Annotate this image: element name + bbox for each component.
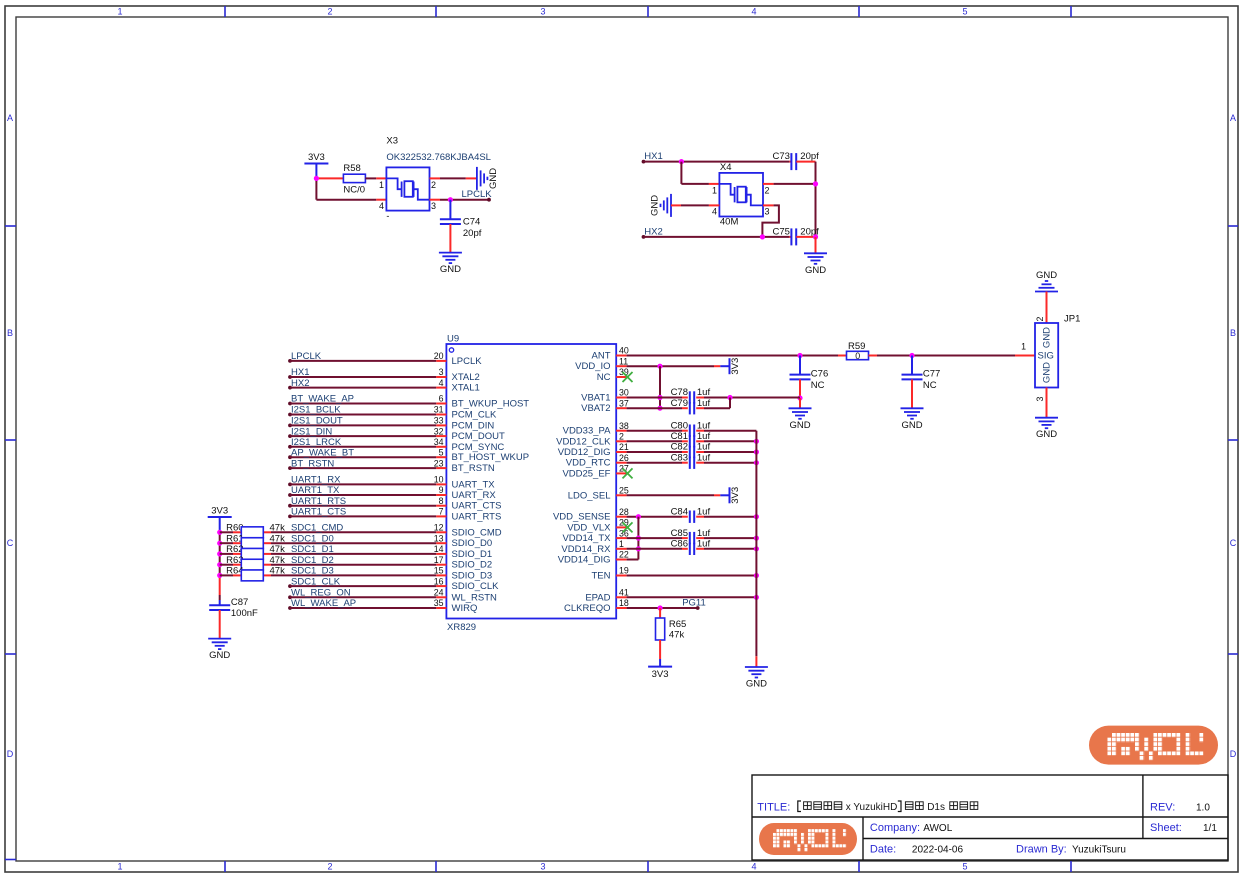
net CLKREQO wire (627, 607, 698, 609)
svg-text:REV:: REV: (1150, 802, 1175, 814)
junction VBAT1 (657, 395, 662, 400)
svg-text:GND: GND (209, 650, 230, 661)
net VDD14_TX wire (627, 537, 682, 539)
C76 top lead (799, 356, 801, 375)
svg-text:UART_CTS: UART_CTS (452, 501, 502, 512)
U9 pin 26 VDD_RTC (616, 462, 626, 464)
wire net HX1 (288, 375, 292, 379)
wire net BT_RSTN (288, 466, 292, 470)
U9 pin 12 SDIO_CMD (436, 531, 446, 533)
wire right riser (X4/GND) (815, 162, 817, 238)
svg-text:3V3: 3V3 (652, 669, 669, 680)
svg-text:SDC1_D0: SDC1_D0 (291, 533, 334, 544)
svg-text:24: 24 (434, 588, 444, 598)
svg-text:16: 16 (434, 576, 444, 586)
U9 pin 16 SDIO_CLK (436, 585, 446, 587)
IC U9 body (446, 344, 616, 619)
svg-text:21: 21 (619, 442, 629, 452)
svg-text:2: 2 (765, 186, 770, 196)
capacitor C80 (690, 425, 694, 437)
svg-text:5: 5 (439, 447, 444, 457)
junction VDD14_RX (636, 546, 641, 551)
ground (C76) (789, 408, 812, 419)
no-connect pin 39 (623, 372, 633, 382)
wire net AP_WAKE_BT (288, 455, 292, 459)
svg-text:XTAL1: XTAL1 (452, 383, 480, 394)
svg-text:GND: GND (805, 265, 826, 276)
svg-text:C: C (7, 538, 14, 548)
net wire to C80 (627, 430, 682, 432)
junction rail/R62 (217, 551, 222, 556)
svg-text:JP1: JP1 (1064, 314, 1080, 325)
svg-text:12: 12 (434, 523, 444, 533)
JP1 pin 3 stub (1046, 388, 1048, 418)
svg-text:X3: X3 (386, 136, 398, 147)
net VDD14_DIG wire (627, 559, 639, 561)
svg-text:I2S1_LRCK: I2S1_LRCK (291, 437, 342, 448)
svg-text:D: D (7, 749, 14, 759)
svg-text:SDIO_D0: SDIO_D0 (452, 538, 493, 549)
svg-text:5: 5 (962, 7, 967, 17)
wire rail to C87 (219, 575, 221, 578)
wire C80 to bus (704, 430, 756, 432)
svg-text:VDD14_RX: VDD14_RX (561, 544, 611, 555)
net ANT wire (627, 355, 838, 357)
svg-text:28: 28 (619, 507, 629, 517)
junction C76/VBAT caps/GND (797, 395, 802, 400)
svg-text:15: 15 (434, 566, 444, 576)
net HX1 wire end (642, 160, 646, 164)
svg-text:SDC1_CMD: SDC1_CMD (291, 523, 343, 534)
U9 pin 20 LPCLK (436, 360, 446, 362)
junction X4 pin2/riser (813, 181, 818, 186)
capacitor C84 (690, 511, 694, 523)
net VDD_IO wire (627, 365, 714, 367)
svg-text:YuzukiTsuru: YuzukiTsuru (1072, 845, 1126, 856)
capacitor C81 (690, 435, 694, 447)
svg-text:CLKREQO: CLKREQO (564, 603, 610, 614)
svg-text:VBAT2: VBAT2 (581, 403, 610, 414)
svg-text:VDD14_TX: VDD14_TX (562, 533, 611, 544)
resistor R62 (241, 548, 263, 559)
U9 pin 31 PCM_CLK (436, 414, 446, 416)
svg-text:47k: 47k (270, 523, 286, 534)
svg-text:34: 34 (434, 437, 444, 447)
svg-text:XTAL2: XTAL2 (452, 372, 480, 383)
U9 pin 11 VDD_IO (616, 365, 626, 367)
JP1 pin 2 stub (1046, 292, 1048, 324)
svg-text:GND: GND (440, 264, 461, 275)
R65 bottom stub (659, 640, 661, 659)
svg-text:C75: C75 (773, 227, 790, 238)
U9 pin 13 SDIO_D0 (436, 542, 446, 544)
U9 pin 41 EPAD (616, 596, 626, 598)
svg-text:VDD12_CLK: VDD12_CLK (556, 436, 611, 447)
wire net UART1_RX (288, 483, 292, 487)
svg-text:HX1: HX1 (644, 151, 662, 162)
U9 pin 40 ANT (616, 355, 626, 357)
U9 pin 33 PCM_DIN (436, 424, 446, 426)
svg-text:C77: C77 (923, 368, 940, 379)
svg-text:GND: GND (650, 195, 661, 216)
net LDO_SEL wire (627, 494, 714, 496)
capacitor C85 (690, 532, 694, 544)
ground (JP1 top) (1035, 281, 1058, 292)
svg-text:2: 2 (1035, 316, 1045, 321)
svg-text:AWOL: AWOL (923, 823, 953, 834)
net PG11 wire end (696, 606, 700, 610)
wire to X3 pin 4 (316, 199, 376, 201)
svg-text:11: 11 (619, 356, 628, 366)
resistor R65 (656, 618, 665, 640)
C74 top lead (449, 200, 451, 220)
svg-text:XR829: XR829 (447, 622, 476, 633)
svg-text:1: 1 (1021, 342, 1026, 352)
svg-text:38: 38 (619, 421, 629, 431)
X4 pin 4 stub (709, 204, 720, 206)
C77 bottom lead (911, 379, 913, 408)
capacitor C82 (690, 446, 694, 458)
wire R59 to JP1 (877, 355, 1015, 357)
resistor R61 (241, 538, 263, 549)
resistor R63 (241, 559, 263, 570)
svg-text:D: D (1230, 749, 1237, 759)
wire net WL_WAKE_AP (288, 606, 292, 610)
border column tick (224, 6, 226, 17)
GND stem (X3 pin2) (466, 177, 477, 179)
capacitor C86 (690, 543, 694, 555)
U9 pin 23 BT_RSTN (436, 467, 446, 469)
svg-text:TEN: TEN (592, 571, 611, 582)
wire X4 pin2 to riser (774, 183, 816, 185)
power stem (VDD_IO) (714, 365, 720, 367)
svg-text:BT_HOST_WKUP: BT_HOST_WKUP (452, 452, 530, 463)
svg-text:20pf: 20pf (800, 151, 819, 162)
X3 pin 2 stub (430, 177, 441, 179)
svg-text:8: 8 (439, 496, 444, 506)
capacitor C77 (902, 375, 923, 380)
border bottom-left tick (5, 859, 16, 861)
junction 3V3/R58 (314, 176, 319, 181)
wire X3 pin 2 to GND (440, 177, 466, 179)
capacitor C79 (690, 402, 694, 414)
svg-text:R58: R58 (343, 163, 360, 174)
GND stem (X4) (815, 237, 817, 253)
svg-text:35: 35 (434, 598, 444, 608)
crystal X3 body (386, 167, 429, 210)
svg-text:40M: 40M (720, 217, 739, 228)
power 3V3 (X3) (304, 163, 328, 165)
wire net WL_REG_ON (288, 595, 292, 599)
svg-text:B: B (7, 328, 13, 338)
svg-text:14: 14 (434, 544, 444, 554)
no-connect pin 27 (623, 468, 633, 478)
svg-text:C84: C84 (671, 506, 688, 517)
svg-text:C86: C86 (671, 539, 688, 550)
svg-text:VDD_SENSE: VDD_SENSE (553, 512, 611, 523)
svg-text:SDC1_D3: SDC1_D3 (291, 566, 334, 577)
svg-text:6: 6 (439, 394, 444, 404)
svg-text:Date:: Date: (870, 844, 896, 856)
JP1 pin 1 stub (1015, 355, 1035, 357)
svg-text:22: 22 (619, 550, 629, 560)
svg-text:C81: C81 (671, 431, 688, 442)
power 3V3 stem (pullups) (219, 517, 221, 532)
svg-text:20: 20 (434, 351, 444, 361)
svg-text:47k: 47k (270, 555, 286, 566)
svg-text:25: 25 (619, 486, 629, 496)
U9 pin 10 UART_TX (436, 483, 446, 485)
svg-text:UART1_CTS: UART1_CTS (291, 507, 346, 518)
svg-text:WIRQ: WIRQ (452, 603, 478, 614)
border column tick (858, 6, 860, 17)
junction LPCLK/C74 (448, 197, 453, 202)
border row tick (5, 225, 16, 227)
svg-text:NC/0: NC/0 (343, 184, 365, 195)
svg-text:LPCLK: LPCLK (452, 356, 483, 367)
svg-text:VDD_VLX: VDD_VLX (567, 522, 611, 533)
junction bus/C83 (754, 460, 759, 465)
svg-text:2: 2 (327, 7, 332, 17)
svg-text:2: 2 (431, 180, 436, 190)
junction bus/C82 (754, 449, 759, 454)
svg-text:C: C (1230, 538, 1237, 548)
U9 pin 8 UART_CTS (436, 505, 446, 507)
svg-text:VBAT1: VBAT1 (581, 393, 610, 404)
R59 left stub (838, 355, 847, 357)
junction HX1 (679, 159, 684, 164)
C87 top lead (219, 600, 221, 605)
svg-text:C73: C73 (773, 151, 790, 162)
U9 pin 36 VDD14_TX (616, 537, 626, 539)
svg-text:Drawn By:: Drawn By: (1016, 844, 1067, 856)
svg-text:HX2: HX2 (291, 378, 309, 389)
wire X3 pin 3 / LPCLK (440, 199, 489, 201)
svg-text:3: 3 (1035, 396, 1045, 401)
U9 pin 34 PCM_SYNC (436, 446, 446, 448)
svg-text:C83: C83 (671, 452, 688, 463)
wire HX1 down to X4 pin1 (680, 162, 682, 184)
wire net SDC1_D1 (263, 553, 271, 555)
svg-text:UART_TX: UART_TX (452, 479, 496, 490)
svg-text:PCM_DOUT: PCM_DOUT (452, 431, 506, 442)
net VDD_SENSE wire (627, 516, 682, 518)
svg-text:SDIO_D3: SDIO_D3 (452, 570, 493, 581)
svg-text:LDO_SEL: LDO_SEL (568, 490, 611, 501)
wire net I2S1_BCLK (288, 413, 292, 417)
wire net I2S1_DIN (288, 434, 292, 438)
junction bus/C81 (754, 439, 759, 444)
svg-text:SIG: SIG (1038, 351, 1054, 362)
svg-text:PCM_CLK: PCM_CLK (452, 410, 498, 421)
wire net UART1_CTS (288, 515, 292, 519)
title text (798, 801, 801, 812)
svg-text:1: 1 (117, 7, 122, 17)
power 3V3 stem (315, 164, 317, 179)
C75 right lead (796, 236, 815, 238)
junction HX2/X4 pin3 (760, 234, 765, 239)
svg-text:18: 18 (619, 598, 629, 608)
power 3V3 (pullups) (208, 516, 232, 518)
svg-text:UART1_RTS: UART1_RTS (291, 496, 346, 507)
R59 right stub (869, 355, 878, 357)
svg-text:3: 3 (540, 862, 545, 872)
R60 left stub (233, 531, 241, 533)
border row tick (5, 439, 16, 441)
svg-text:19: 19 (619, 566, 629, 576)
C74 bottom lead (449, 224, 451, 253)
svg-text:SDIO_D2: SDIO_D2 (452, 560, 493, 571)
svg-text:GND: GND (746, 679, 767, 690)
junction rail/R61 (217, 541, 222, 546)
svg-text:3: 3 (431, 201, 436, 211)
svg-text:VDD_IO: VDD_IO (575, 361, 610, 372)
wire net UART1_RTS (288, 504, 292, 508)
svg-text:NC: NC (597, 372, 611, 383)
svg-text:100nF: 100nF (231, 608, 258, 619)
svg-text:SDC1_CLK: SDC1_CLK (291, 576, 341, 587)
svg-text:C74: C74 (463, 217, 480, 228)
GND stem (C76) (799, 398, 801, 408)
svg-text:Sheet:: Sheet: (1150, 822, 1182, 834)
svg-text:C85: C85 (671, 528, 688, 539)
wire net I2S1_LRCK (288, 445, 292, 449)
svg-text:GND: GND (1042, 327, 1053, 348)
wire C81 to bus (704, 440, 756, 442)
svg-text:C78: C78 (671, 387, 688, 398)
svg-text:5: 5 (962, 862, 967, 872)
svg-text:4: 4 (712, 207, 717, 217)
U9 pin 28 VDD_SENSE (616, 516, 626, 518)
svg-text:47k: 47k (270, 544, 286, 555)
svg-text:A: A (1230, 113, 1236, 123)
svg-text:R65: R65 (669, 619, 686, 630)
U9 pin 30 VBAT1 (616, 397, 626, 399)
svg-text:3V3: 3V3 (308, 152, 325, 163)
wire 3V3 down (315, 178, 317, 199)
svg-text:7: 7 (439, 507, 444, 517)
svg-text:3: 3 (439, 367, 444, 377)
X4 pin 2 stub (763, 183, 774, 185)
svg-text:13: 13 (434, 533, 444, 543)
svg-text:VDD14_DIG: VDD14_DIG (558, 555, 611, 566)
power 3V3 (R65) (648, 666, 672, 668)
junction rail/R63 (217, 562, 222, 567)
U9 pin 22 VDD14_DIG (616, 559, 626, 561)
svg-text:3V3: 3V3 (730, 358, 741, 375)
svg-text:X4: X4 (720, 162, 732, 173)
U9 pin 37 VBAT2 (616, 407, 626, 409)
svg-text:SDIO_CLK: SDIO_CLK (452, 581, 500, 592)
svg-text:4: 4 (751, 862, 756, 872)
net VBAT1 wire (627, 397, 682, 399)
svg-text:GND: GND (1036, 270, 1057, 281)
svg-text:32: 32 (434, 426, 444, 436)
svg-text:C79: C79 (671, 398, 688, 409)
svg-text:0: 0 (855, 351, 860, 361)
net VBAT2 wire (627, 407, 682, 409)
wire net UART1_TX (288, 493, 292, 497)
svg-text:UART_RTS: UART_RTS (452, 511, 502, 522)
svg-text:C87: C87 (231, 597, 248, 608)
U9 pin 21 VDD12_DIG (616, 451, 626, 453)
svg-text:UART_RX: UART_RX (452, 490, 497, 501)
svg-text:OK322532.768KJBA4SL: OK322532.768KJBA4SL (386, 152, 491, 163)
junction VBAT2 (657, 406, 662, 411)
svg-text:1/1: 1/1 (1203, 823, 1217, 834)
net HX2 wire end (642, 235, 646, 239)
C76 bottom lead (799, 379, 801, 398)
svg-text:UART1_TX: UART1_TX (291, 485, 340, 496)
junction VDD14_TX (636, 536, 641, 541)
U9 pin 18 CLKREQO (616, 607, 626, 609)
resistor R58 (343, 174, 365, 182)
svg-text:3V3: 3V3 (730, 487, 741, 504)
U9 pin 27 VDD25_EF (616, 472, 626, 474)
junction ANT/C76 (797, 353, 802, 358)
svg-text:41: 41 (619, 588, 629, 598)
svg-text:WL_WAKE_AP: WL_WAKE_AP (291, 598, 356, 609)
svg-text:x YuzukiHD: x YuzukiHD (846, 802, 898, 813)
svg-text:3: 3 (540, 7, 545, 17)
capacitor C75 (791, 228, 796, 245)
border row tick (5, 653, 16, 655)
svg-text:GND: GND (789, 420, 810, 431)
svg-text:GND: GND (488, 168, 499, 189)
C73 right lead (796, 161, 815, 163)
junction C75/GND riser (813, 234, 818, 239)
ground (JP1 bottom) (1035, 418, 1058, 429)
U9 pin 3 XTAL2 (436, 376, 446, 378)
svg-text:NC: NC (923, 380, 937, 391)
X3 pin 3 stub (430, 199, 441, 201)
GND stem (bus) (755, 656, 757, 667)
wire C83 to bus (704, 462, 756, 464)
svg-text:Company:: Company: (870, 822, 920, 834)
svg-text:HX1: HX1 (291, 367, 309, 378)
no-connect pin 29 (623, 522, 633, 532)
svg-text:B: B (1230, 328, 1236, 338)
capacitor C74 (440, 219, 461, 224)
net TEN wire (627, 575, 757, 577)
svg-text:VDD25_EF: VDD25_EF (562, 468, 610, 479)
svg-text:U9: U9 (447, 334, 459, 345)
junction bus/C85 (754, 536, 759, 541)
power 3V3 (LDO_SEL) (729, 487, 731, 503)
svg-text:GND: GND (1042, 362, 1053, 383)
svg-text:47k: 47k (270, 533, 286, 544)
connector JP1 body (1035, 323, 1058, 388)
ground (C77) (901, 408, 924, 419)
svg-text:BT_RSTN: BT_RSTN (452, 463, 495, 474)
svg-text:D1s: D1s (927, 802, 945, 813)
junction bus/EPAD (754, 595, 759, 600)
R65 top stub (659, 608, 661, 618)
svg-text:1: 1 (117, 862, 122, 872)
wire 3V3 to R58 (316, 177, 343, 179)
svg-text:40: 40 (619, 346, 629, 356)
svg-text:WL_RSTN: WL_RSTN (452, 592, 498, 603)
svg-text:30: 30 (619, 388, 629, 398)
svg-text:1.0: 1.0 (1196, 803, 1210, 814)
U9 pin-1 mark (449, 348, 453, 352)
svg-text:I2S1_BCLK: I2S1_BCLK (291, 405, 341, 416)
svg-text:SDIO_D1: SDIO_D1 (452, 549, 493, 560)
R63 left stub (233, 564, 241, 566)
svg-text:BT_WKUP_HOST: BT_WKUP_HOST (452, 399, 530, 410)
svg-text:PCM_DIN: PCM_DIN (452, 420, 495, 431)
U9 pin 6 BT_WKUP_HOST (436, 403, 446, 405)
